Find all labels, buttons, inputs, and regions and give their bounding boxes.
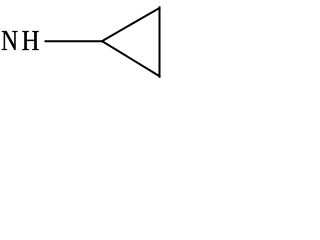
bond N-C (single bond from NH to cyclopropane ring)	[45, 40, 103, 42]
cyclopropane ring bond C1-C2 (upper diagonal edge)	[101, 7, 160, 41]
svg-text:H: H	[22, 24, 40, 56]
svg-text:N: N	[1, 24, 18, 57]
cyclopropane ring bond C2-C3 (right vertical edge)	[159, 6, 161, 78]
cyclopropane ring bond C1-C3 (lower diagonal edge)	[101, 41, 160, 77]
